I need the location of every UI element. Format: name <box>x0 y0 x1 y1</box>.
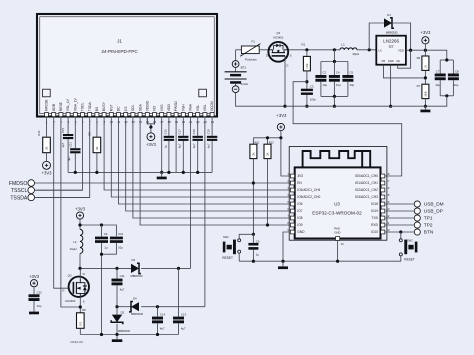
svg-text:3xAA: 3xAA <box>241 82 249 86</box>
wire EN to SW1/C6 junction <box>252 233 255 236</box>
capacitor C7 10u <box>440 59 453 61</box>
svg-text:C14: C14 <box>160 313 166 317</box>
wire TP1 <box>385 217 414 219</box>
wire FMDSO to U3 EN <box>35 182 291 184</box>
svg-text:VDDIO: VDDIO <box>146 100 150 111</box>
svg-text:IO9: IO9 <box>297 223 302 227</box>
svg-text:2R2: 2R2 <box>79 321 82 326</box>
wire C2/C4/C5 bottoms <box>321 95 348 97</box>
capacitor C21 <box>74 124 76 148</box>
svg-text:BS: BS <box>95 106 99 111</box>
svg-text:PWSD: PWSD <box>174 101 178 112</box>
wire VGL net vertical <box>204 124 206 307</box>
svg-text:+3V3: +3V3 <box>41 171 52 176</box>
svg-text:IO5/ADC2_CH0: IO5/ADC2_CH0 <box>297 195 320 199</box>
svg-text:AO3400: AO3400 <box>65 299 76 303</box>
svg-text:D: D <box>83 272 85 276</box>
svg-text:S: S <box>290 53 292 57</box>
wire VDDIO/VCI bracket <box>147 123 154 125</box>
svg-text:4µ7: 4µ7 <box>207 143 211 148</box>
svg-text:CS: CS <box>124 106 128 111</box>
svg-text:1µ: 1µ <box>104 245 108 249</box>
svg-text:10µ: 10µ <box>435 83 440 87</box>
capacitor C5 10u <box>347 62 349 76</box>
svg-text:BUSY: BUSY <box>102 101 106 111</box>
wire TSSCL stub <box>35 189 83 191</box>
svg-text:C11: C11 <box>120 274 125 278</box>
svg-text:C2: C2 <box>323 70 327 74</box>
svg-text:AO3401: AO3401 <box>273 35 284 39</box>
svg-text:SW2: SW2 <box>407 238 413 242</box>
svg-text:C9: C9 <box>104 232 108 236</box>
svg-text:S: S <box>83 300 85 304</box>
svg-text:D: D <box>266 53 268 57</box>
wire VGH net vertical <box>190 124 192 268</box>
svg-text:VDD: VDD <box>167 104 171 112</box>
svg-text:10µ: 10µ <box>37 304 42 308</box>
svg-text:4µ7: 4µ7 <box>160 327 165 331</box>
diode D1 MBR0530 <box>369 23 384 50</box>
svg-text:230404-002: 230404-002 <box>70 341 84 344</box>
svg-text:TSCL: TSCL <box>81 103 85 112</box>
svg-text:IO2/ADC1_CH2: IO2/ADC1_CH2 <box>355 188 378 192</box>
svg-text:C16: C16 <box>163 129 167 135</box>
svg-text:C5: C5 <box>350 70 354 74</box>
svg-text:L1: L1 <box>342 42 346 46</box>
svg-text:24-PIN-EPD-FPC: 24-PIN-EPD-FPC <box>101 49 138 54</box>
svg-text:GND: GND <box>334 231 340 235</box>
svg-text:SW1: SW1 <box>223 235 229 239</box>
svg-text:10µ: 10µ <box>323 83 328 87</box>
svg-text:TSDA: TSDA <box>88 102 92 112</box>
wire Q3 source <box>79 296 81 312</box>
svg-text:R7: R7 <box>417 84 421 88</box>
capacitor C15 <box>67 124 69 134</box>
wire U2 GND <box>390 65 392 107</box>
svg-text:IO0/ADC1_CH0: IO0/ADC1_CH0 <box>355 174 378 178</box>
wire R1/C3 node to IO0 (wake line) <box>293 82 402 176</box>
svg-text:+3V3: +3V3 <box>75 206 86 211</box>
svg-text:10µ: 10µ <box>336 83 341 87</box>
wire: J1 pin stubs <box>46 117 48 125</box>
svg-text:MBR0530: MBR0530 <box>131 274 143 278</box>
svg-text:C21: C21 <box>68 142 72 148</box>
svg-text:USB_DM: USB_DM <box>424 202 444 208</box>
svg-text:MFCSB: MFCSB <box>45 99 49 111</box>
svg-text:DC: DC <box>117 106 121 111</box>
svg-text:18: 18 <box>386 172 390 176</box>
svg-text:FB: FB <box>382 59 386 63</box>
svg-text:C3: C3 <box>310 85 314 89</box>
wire Q3 drain <box>79 268 81 279</box>
svg-text:D4: D4 <box>133 297 137 301</box>
connector TP2 <box>414 222 420 228</box>
connector FMDSO <box>28 180 35 187</box>
wire USB_DP <box>385 210 414 212</box>
wire VSS <box>161 124 163 172</box>
svg-text:TP1: TP1 <box>424 216 433 222</box>
capacitor C13 4u7 <box>178 268 180 316</box>
svg-text:VSL: VSL <box>196 105 200 111</box>
inductor L2 10uH <box>80 229 83 253</box>
svg-text:ESP32-C3-WROOM-02: ESP32-C3-WROOM-02 <box>312 210 362 215</box>
svg-text:R6: R6 <box>417 56 421 60</box>
wire Q2 gate to gnd <box>284 56 286 106</box>
svg-text:IO4/ADC1_CH4: IO4/ADC1_CH4 <box>297 188 320 192</box>
svg-text:+3V3: +3V3 <box>146 142 157 147</box>
svg-text:R10: R10 <box>37 130 41 136</box>
wire VDD output <box>406 50 447 60</box>
svg-text:C17: C17 <box>178 129 182 135</box>
svg-text:IO6: IO6 <box>297 202 302 206</box>
wire U3 GND to rail <box>283 232 290 261</box>
svg-text:3V3: 3V3 <box>297 174 303 178</box>
svg-text:1M: 1M <box>425 65 428 68</box>
svg-text:IO8: IO8 <box>297 216 302 220</box>
svg-text:C4: C4 <box>336 70 340 74</box>
svg-text:+3V3: +3V3 <box>29 274 40 279</box>
svg-text:BTN: BTN <box>424 230 434 236</box>
wire TSCL net <box>36 124 82 190</box>
svg-text:R1: R1 <box>302 43 306 47</box>
wire RESE net (pin3 to R8) <box>61 124 80 307</box>
capacitor C8 10u <box>452 60 454 74</box>
transistor Q3 AO3400 <box>69 277 89 297</box>
svg-text:10µH: 10µH <box>70 247 77 251</box>
svg-text:SCL: SCL <box>131 105 135 112</box>
svg-text:VSS: VSS <box>160 104 164 111</box>
svg-text:100n: 100n <box>310 98 317 102</box>
svg-text:R9: R9 <box>87 132 91 136</box>
svg-text:Q3: Q3 <box>68 273 72 277</box>
module U3 ESP32-C3-WROOM-02 <box>287 147 390 247</box>
svg-text:10µ: 10µ <box>118 245 123 249</box>
svg-text:L2: L2 <box>73 240 77 244</box>
capacitor C2 10u <box>320 62 322 76</box>
connector USB_DP <box>414 208 420 214</box>
wire GDR net (pin2 to Q3 gate) <box>54 124 69 288</box>
svg-text:GND: GND <box>297 230 305 234</box>
svg-text:C7: C7 <box>436 69 440 73</box>
svg-text:10µ: 10µ <box>350 83 355 87</box>
svg-text:RESE: RESE <box>59 101 63 111</box>
capacitor C14 4u7 <box>157 307 159 317</box>
connector TSSDA <box>28 194 35 201</box>
wire BTN row to SW2 <box>399 230 402 233</box>
svg-text:1µ: 1µ <box>163 145 167 149</box>
wire main gnd rail <box>285 96 447 106</box>
svg-text:F1: F1 <box>252 40 256 44</box>
svg-text:LN2266: LN2266 <box>383 39 399 44</box>
transistor Q2 AO3401 <box>268 42 288 62</box>
svg-text:IO3/ADC1_CH3: IO3/ADC1_CH3 <box>355 195 378 199</box>
svg-text:IO10: IO10 <box>371 230 378 234</box>
wire TP2 <box>385 224 414 226</box>
capacitor C16 <box>168 124 170 136</box>
svg-text:VDD: VDD <box>398 48 404 52</box>
ground (regulator) <box>424 106 426 109</box>
svg-text:MBR0530: MBR0530 <box>386 30 398 34</box>
connector J1 24-PIN-EPD-FPC <box>37 14 217 124</box>
wire booster 3v3 node <box>79 219 81 229</box>
svg-text:Polyfuse: Polyfuse <box>245 57 257 61</box>
capacitor C6 1u <box>252 234 254 243</box>
svg-text:GND: GND <box>388 59 394 63</box>
svg-text:C18: C18 <box>192 129 196 135</box>
svg-text:4µ7: 4µ7 <box>178 143 182 148</box>
wire 3v3 to U3 pin1 and pullups <box>281 131 291 176</box>
svg-text:+3V3: +3V3 <box>420 30 431 35</box>
svg-text:4µ7: 4µ7 <box>61 142 65 147</box>
svg-text:VGH_LV: VGH_LV <box>74 97 78 111</box>
svg-text:R8: R8 <box>82 308 86 312</box>
capacitor C2 10u <box>333 50 335 62</box>
wire BTN <box>385 231 414 233</box>
svg-text:C15: C15 <box>61 127 65 133</box>
svg-text:CE: CE <box>396 59 400 63</box>
svg-text:J1: J1 <box>117 38 122 43</box>
svg-text:D3: D3 <box>132 258 136 262</box>
svg-text:C8: C8 <box>455 69 459 73</box>
wire R11 to EN / SW1 <box>252 159 254 235</box>
wire BT1 minus to gnd rail <box>236 93 285 107</box>
wire TSSDA stub <box>35 196 90 198</box>
svg-text:RESET: RESET <box>404 258 415 262</box>
svg-text:C22: C22 <box>37 291 43 295</box>
svg-text:RST: RST <box>110 105 114 112</box>
capacitor C19 <box>211 124 213 136</box>
svg-text:RESET: RESET <box>222 256 233 260</box>
wire pin19 <box>175 124 177 172</box>
svg-text:4µ7: 4µ7 <box>192 143 196 148</box>
svg-text:VGL: VGL <box>203 104 207 111</box>
wire VGH line <box>80 267 131 269</box>
svg-text:FMDSO: FMDSO <box>9 181 27 187</box>
wire CE loop <box>398 50 411 68</box>
svg-text:C10: C10 <box>118 232 124 236</box>
svg-text:VSL_LV: VSL_LV <box>66 98 70 111</box>
svg-text:BT1: BT1 <box>241 66 247 70</box>
svg-text:USB_DP: USB_DP <box>424 209 443 215</box>
wire top rail (after Q2) <box>289 49 340 51</box>
svg-text:GDR: GDR <box>52 103 56 111</box>
svg-text:D2: D2 <box>121 311 125 315</box>
wire R12 to IO9 <box>267 159 269 225</box>
connector USB_DM <box>414 201 420 207</box>
wire pin8 <box>96 124 98 137</box>
ground (VSS) <box>161 172 163 176</box>
svg-text:VGH: VGH <box>189 103 193 111</box>
ground (U3) <box>282 261 284 266</box>
wire VGL line <box>117 306 131 308</box>
svg-text:TSSDA: TSSDA <box>10 195 28 201</box>
svg-text:4µ7: 4µ7 <box>120 288 125 292</box>
regulator U2 LN2266 <box>376 36 406 65</box>
pushbutton SW2 RESET <box>399 239 402 242</box>
svg-text:LX: LX <box>378 48 382 52</box>
connector TP1 <box>414 215 420 221</box>
svg-text:17: 17 <box>386 179 390 183</box>
svg-text:100k: 100k <box>306 63 309 69</box>
svg-text:SDA: SDA <box>138 104 142 112</box>
fuse F1 Polyfuse <box>241 46 259 54</box>
svg-text:TXD: TXD <box>372 216 379 220</box>
wire esp gnd rail <box>239 256 401 261</box>
svg-text:VSH: VSH <box>182 104 186 111</box>
wire bus J1 pins 9-14 to U3 IO4-IO9 <box>104 124 290 190</box>
supply +3V3 (VDDIO) <box>147 133 155 141</box>
svg-text:MBR0530: MBR0530 <box>131 312 143 316</box>
svg-text:C19: C19 <box>207 129 211 135</box>
capacitor C18 <box>197 124 199 136</box>
svg-text:EN: EN <box>297 181 302 185</box>
ground (C22) <box>33 309 35 312</box>
svg-text:10µ: 10µ <box>454 83 459 87</box>
connector TSSCL <box>28 187 35 194</box>
wire FB to divider <box>384 65 426 78</box>
svg-text:IO18: IO18 <box>371 202 378 206</box>
svg-text:4µ7: 4µ7 <box>67 156 71 161</box>
svg-text:15: 15 <box>386 193 390 197</box>
svg-text:C6: C6 <box>256 239 260 243</box>
wire TSDA net <box>36 124 89 197</box>
svg-text:4µ7: 4µ7 <box>181 327 186 331</box>
wire booster gnd rail <box>80 334 178 336</box>
svg-text:TP2: TP2 <box>424 223 433 229</box>
svg-text:IO19: IO19 <box>371 209 378 213</box>
svg-text:IO1/ADC1_CH1: IO1/ADC1_CH1 <box>355 181 378 185</box>
svg-text:RXD: RXD <box>371 223 379 227</box>
svg-text:560k: 560k <box>425 90 428 96</box>
svg-text:IO7: IO7 <box>297 209 302 213</box>
diode D2 MBR0530 <box>116 307 118 315</box>
ground (booster) <box>116 335 118 340</box>
svg-text:U3: U3 <box>334 201 340 206</box>
svg-text:D1: D1 <box>387 13 391 17</box>
capacitor C22 10u <box>33 287 35 295</box>
svg-text:MBR0530: MBR0530 <box>118 329 130 333</box>
wire U3 pad pin19 <box>337 240 339 261</box>
wire top rail <box>236 49 242 51</box>
svg-text:+3V3: +3V3 <box>276 113 287 118</box>
supply +3V3 (R10) <box>43 161 51 169</box>
wire L1 to LX <box>357 49 376 51</box>
connector BTN <box>414 229 420 235</box>
battery BT1 3xAA <box>235 50 237 61</box>
svg-text:VCI: VCI <box>153 106 157 112</box>
svg-text:1µ: 1µ <box>256 253 260 257</box>
svg-text:10µH: 10µH <box>352 52 359 56</box>
wire gnd rail under J1 <box>68 171 212 173</box>
capacitor C17 <box>182 124 184 136</box>
svg-text:16: 16 <box>386 186 390 190</box>
svg-text:C13: C13 <box>181 313 187 317</box>
capacitor C4 10u <box>333 62 335 76</box>
svg-text:VCOM: VCOM <box>210 101 214 111</box>
wire USB_DM <box>385 203 414 205</box>
capacitor C11 4u7 <box>116 268 118 278</box>
wire pin1 <box>46 124 48 137</box>
svg-text:TSSCL: TSSCL <box>11 188 28 194</box>
svg-text:U2: U2 <box>389 44 394 48</box>
capacitor C9 1u <box>101 225 103 237</box>
